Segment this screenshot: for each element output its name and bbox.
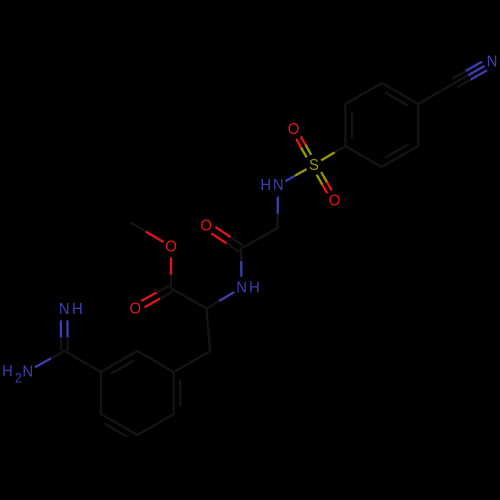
svg-text:H: H: [249, 279, 260, 297]
bond C-N amide: [240, 249, 243, 277]
bond ring1 C4=C5: [382, 83, 418, 106]
bond ring2 C2-C3: [137, 351, 173, 372]
svg-text:H: H: [2, 363, 13, 381]
atom N-H sulfonamide HN: [260, 177, 283, 195]
bond CH2-C(=O): [241, 228, 278, 249]
atom N imine NH: [59, 301, 83, 319]
bond C=O amide: [211, 227, 243, 252]
bond ring1 C5-C6: [345, 83, 381, 104]
bond C=NH imine: [61, 320, 68, 351]
atom O ester: [165, 238, 177, 256]
svg-text:N: N: [236, 279, 247, 297]
bond S-N sulfonamide: [285, 169, 306, 181]
bond ring2 C3=C4: [174, 372, 181, 414]
atom N-H amide NH: [236, 279, 260, 297]
svg-text:O: O: [288, 121, 300, 139]
svg-text:N: N: [487, 53, 498, 71]
svg-text:O: O: [165, 238, 177, 256]
bond ring2-C amidine: [65, 351, 101, 372]
svg-text:H: H: [260, 177, 271, 195]
bond N-CH2: [276, 197, 279, 229]
bond S=O upper: [296, 136, 311, 157]
bond ring1 C3-C4: [417, 104, 419, 146]
bond C#N nitrile: [452, 62, 487, 88]
bond C=O ester: [141, 285, 173, 307]
bond ring2 C1=C2: [101, 351, 137, 374]
bond CH2-ring2: [174, 351, 210, 372]
atom O amide carbonyl: [200, 217, 212, 235]
svg-text:H: H: [72, 301, 83, 319]
bond ring1-C(nitrile): [418, 83, 454, 104]
bond ring2 C5=C6: [101, 414, 137, 437]
bond C-NH2 amine: [35, 351, 65, 367]
bond ring2 C4-C5: [137, 414, 173, 435]
svg-text:N: N: [59, 301, 70, 319]
bond S=O lower: [317, 172, 332, 193]
atom S sulfonyl: [309, 156, 319, 174]
bond C-O ester: [170, 258, 172, 289]
bond ring1 C6=C1: [345, 104, 352, 146]
bond N-CH alpha: [207, 292, 235, 309]
atom O (sulfonyl lower): [329, 192, 341, 210]
svg-text:O: O: [329, 192, 341, 210]
bond ring1 C1-C2: [345, 146, 381, 167]
svg-text:O: O: [200, 217, 212, 235]
svg-text:S: S: [309, 156, 319, 174]
bond CH-CH2 benzyl: [207, 309, 211, 352]
svg-text:2: 2: [15, 370, 22, 386]
bond O-CH3 methyl: [131, 223, 164, 243]
bond ring2 C6-C1: [100, 372, 102, 414]
bond ring1-S: [321, 146, 345, 160]
atom O ester carbonyl: [130, 300, 142, 318]
atom N nitrile: [487, 53, 498, 71]
svg-text:N: N: [273, 177, 284, 195]
bond ring1 C2=C3: [382, 144, 418, 167]
svg-text:N: N: [22, 363, 33, 381]
atom O (sulfonyl upper): [288, 121, 300, 139]
bond CH-C ester carbonyl: [171, 289, 207, 309]
atom N amine H2N: [2, 363, 33, 386]
svg-text:O: O: [130, 300, 142, 318]
